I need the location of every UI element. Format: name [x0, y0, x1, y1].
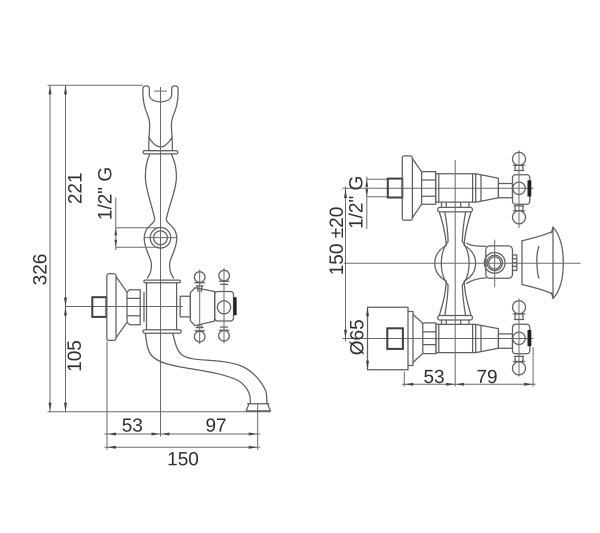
top flange plate	[402, 156, 412, 220]
valve axis centerline horizontal	[66, 306, 184, 308]
diverter circle outer	[484, 253, 505, 274]
svg-text:1/2" G: 1/2" G	[96, 167, 117, 220]
handle ball lower-right	[219, 330, 230, 341]
arrow 150 left	[107, 446, 116, 449]
dimension 150+-20 line	[345, 187, 347, 342]
dimension 221 top arrow	[64, 85, 67, 94]
right arrow 79 left	[455, 383, 464, 386]
right arrow 53 right	[446, 383, 455, 386]
dimension 221/105 shared line	[65, 85, 67, 412]
collar ring below fork	[143, 151, 178, 154]
arrow 53 left	[107, 433, 116, 436]
bottom collar band	[438, 316, 473, 321]
column right inner profile	[462, 212, 469, 316]
vase column right profile	[166, 154, 176, 278]
1/2 G bracket bottom line	[116, 246, 160, 248]
right wall extension line	[403, 372, 405, 387]
1/2 G right arrow down	[365, 189, 368, 197]
svg-text:79: 79	[476, 367, 497, 388]
diverter vertical centerline	[494, 240, 496, 288]
bottom index cap dark	[528, 330, 532, 346]
dimension 53/79 line right	[402, 383, 536, 385]
top reference extension line	[48, 84, 143, 86]
dimension 221 bottom arrow	[64, 298, 67, 307]
150+-20 bottom arrow	[344, 330, 347, 339]
dimension 326 bottom arrow	[49, 403, 52, 412]
neck above bottom body	[442, 320, 469, 324]
handle ball axis line B	[223, 268, 225, 343]
bottom hub circle	[513, 332, 525, 344]
svg-text:1/2" G: 1/2" G	[347, 176, 368, 229]
bell spout bottom edge	[522, 285, 552, 294]
wall extension line	[106, 342, 108, 450]
column left inner profile	[441, 212, 448, 316]
inlet nipple left figure	[92, 297, 106, 317]
bottom handle axis	[518, 299, 520, 377]
top axis centerline	[343, 187, 534, 189]
wall flange plate	[107, 274, 116, 341]
bell spout top edge	[522, 232, 552, 241]
bottom stem cylinder	[498, 334, 512, 348]
svg-text:326: 326	[31, 254, 52, 286]
hub circle	[217, 301, 230, 314]
fork cup arc	[149, 137, 173, 147]
skirt band upper	[144, 280, 181, 283]
vase column left profile	[144, 154, 154, 278]
bottom inlet nipple	[387, 328, 403, 349]
bottom reference line	[48, 411, 271, 413]
svg-text:150 ±20: 150 ±20	[327, 207, 348, 276]
bottom handle lower neck	[513, 356, 524, 361]
diverter circle middle	[487, 255, 502, 270]
bottom handle upper ball	[513, 301, 526, 314]
hose circle centerline	[144, 237, 177, 239]
bell rim line	[552, 227, 554, 299]
dimension 105 top arrow	[64, 307, 67, 316]
svg-text:53: 53	[423, 367, 444, 388]
1/2 G arrow down	[114, 240, 117, 248]
hose connection circle inner	[154, 231, 168, 245]
top inlet nipple	[388, 179, 403, 198]
handle right extension line	[532, 347, 534, 387]
svg-text:150: 150	[167, 449, 199, 470]
svg-text:Ø65: Ø65	[348, 319, 369, 355]
diverter circle inner	[489, 257, 501, 269]
handle ball axis line A	[199, 270, 201, 345]
top index cap dark	[528, 180, 532, 196]
flange big box bottom (O65)	[368, 307, 409, 370]
top handle hub	[513, 175, 530, 205]
top handle lower ball	[513, 211, 526, 224]
bonnet left figure	[190, 288, 214, 326]
bell spout left edge	[521, 241, 523, 285]
bottom handle hub	[513, 324, 530, 354]
spout horizontal centerline	[344, 262, 581, 264]
1/2 G right bracket bottom line	[367, 196, 388, 198]
column right outer profile	[464, 212, 475, 316]
flange cone	[116, 277, 127, 338]
diverter knob knurl	[512, 255, 517, 271]
diverter housing box	[486, 246, 513, 278]
1/2 G bracket top line	[116, 227, 160, 229]
bottom axis centerline	[343, 338, 534, 340]
right arrow 79 right	[524, 383, 533, 386]
handle ball upper-right	[219, 270, 230, 281]
O65 arrow down	[366, 361, 369, 370]
bottom hex nut	[423, 323, 436, 354]
ball collar upper-left	[195, 283, 205, 292]
ball collar upper-right	[219, 281, 229, 284]
svg-text:97: 97	[205, 416, 226, 437]
bottom flange cone	[413, 315, 423, 363]
top bonnet cone	[476, 174, 499, 202]
collar ring right of hex	[143, 293, 145, 322]
bottom handle lower ball	[513, 362, 526, 375]
handle ball upper-left	[194, 272, 205, 283]
bell inner reflection arc	[537, 247, 539, 279]
dimension 326 top arrow	[49, 85, 52, 94]
bottom valve body block	[436, 324, 476, 352]
arrow 97 left	[161, 433, 170, 436]
arrow 150 right	[249, 446, 258, 449]
top flange cone	[412, 159, 421, 218]
spout outlet extension line	[257, 404, 259, 450]
hose connection circle outer	[150, 228, 171, 249]
column axis vertical	[454, 160, 456, 387]
bell end cap	[552, 227, 564, 299]
top handle axis	[518, 150, 520, 228]
dimension 105 bottom arrow	[64, 403, 67, 412]
dimension 326 line	[49, 85, 51, 412]
arrow 53 right	[152, 433, 161, 436]
body sides below skirt	[147, 283, 177, 330]
top handle upper neck	[513, 165, 524, 170]
dimension 150 line	[105, 446, 261, 448]
bottom body step lines	[439, 324, 473, 352]
arrow 97 right	[249, 433, 258, 436]
handle ball lower-left	[194, 331, 205, 342]
neck below top body	[442, 202, 469, 207]
1/2 G arrow up	[114, 228, 117, 236]
spout foot top line	[248, 403, 269, 405]
fillet column to box bottom	[467, 278, 486, 283]
top handle upper ball	[513, 152, 526, 165]
spout lower profile	[145, 333, 250, 404]
fork cradle outline	[143, 86, 178, 151]
bottom flange plate edge	[408, 312, 413, 366]
main vertical centerline left figure	[160, 87, 162, 437]
hex nut left figure	[127, 290, 140, 325]
ball collar lower-left	[195, 326, 205, 331]
top collar band	[438, 207, 473, 212]
bottom handle upper neck	[513, 314, 524, 320]
bottom skirt band	[143, 330, 181, 334]
ball collar lower-right	[219, 327, 229, 330]
top stem cylinder	[498, 184, 512, 198]
1/2 G right bracket vertical	[366, 177, 368, 230]
150+-20 top arrow	[344, 189, 347, 198]
valve stem cylinder right	[180, 296, 190, 317]
svg-text:105: 105	[65, 340, 86, 372]
dimension 53/97 line	[105, 433, 261, 435]
fillet column to box top	[467, 243, 486, 246]
spout upper profile	[173, 333, 267, 404]
bottom bonnet cone	[476, 324, 499, 352]
column left outer profile	[435, 212, 446, 316]
top hex nut	[422, 172, 436, 205]
spout foot	[246, 404, 270, 411]
O65 arrow up	[366, 307, 369, 316]
top handle lower neck	[513, 206, 524, 211]
right arrow 53 left	[404, 383, 413, 386]
index cap dark	[234, 297, 237, 315]
svg-text:53: 53	[122, 416, 143, 437]
top valve body block	[436, 174, 476, 202]
fork cradle crosshair	[154, 90, 167, 92]
top body step lines	[439, 174, 473, 202]
1/2 G right bracket top line	[367, 178, 388, 180]
1/2 G right arrow up	[365, 179, 368, 187]
1/2 G bracket vertical	[115, 198, 117, 251]
top hub circle	[513, 182, 525, 194]
handle hub left figure	[215, 292, 234, 322]
svg-text:221: 221	[66, 172, 87, 204]
